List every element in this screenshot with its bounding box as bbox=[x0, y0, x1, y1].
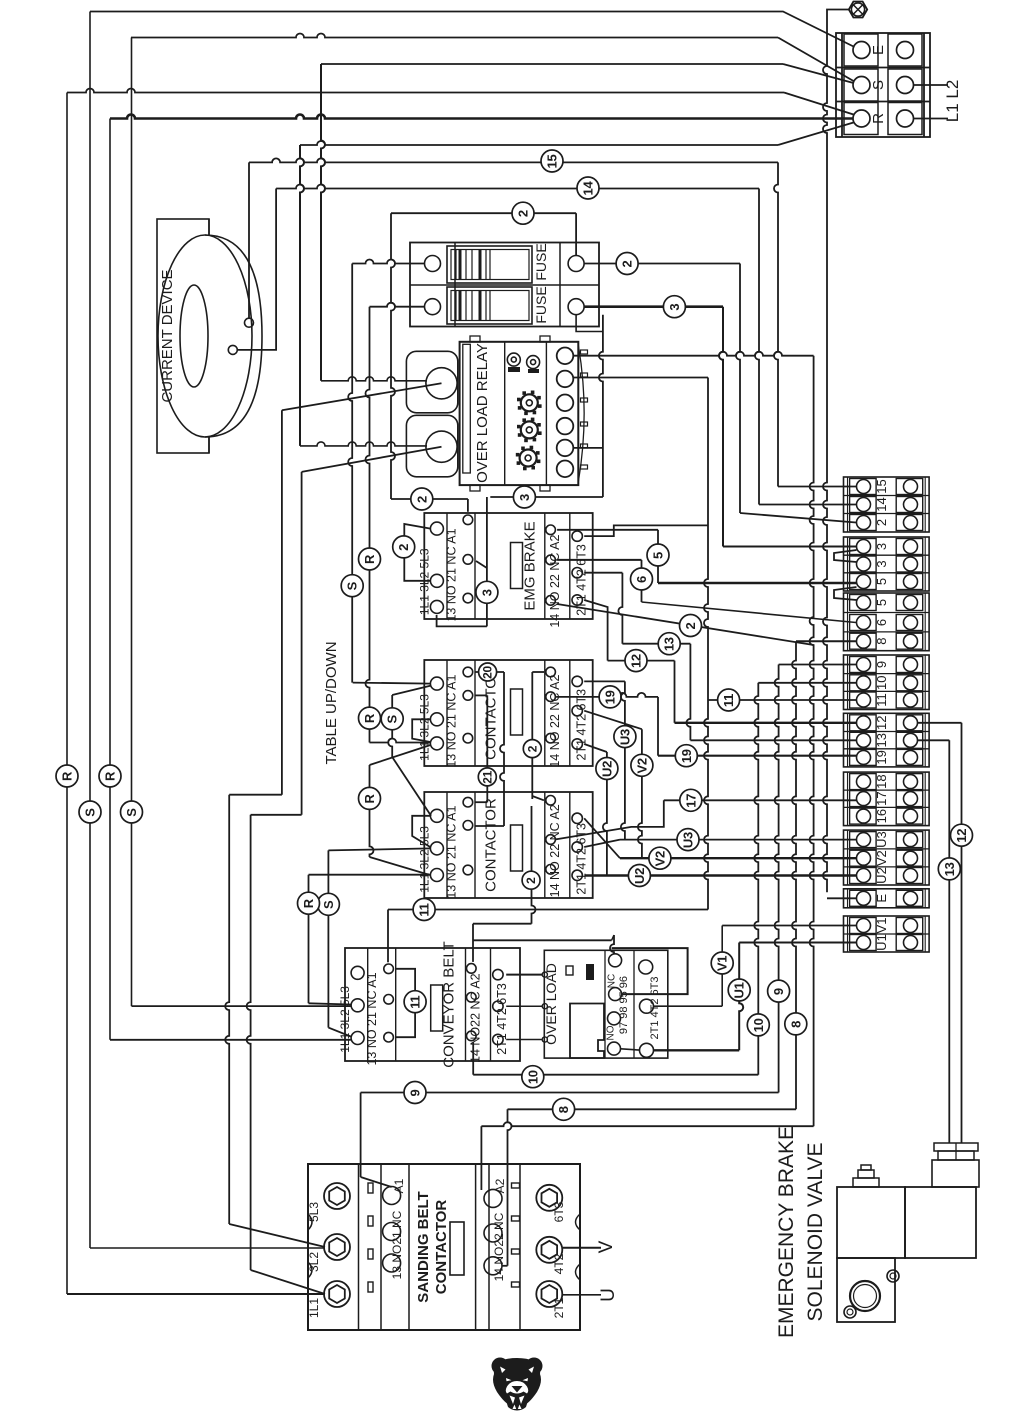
svg-text:1L1 3L2 5L3: 1L1 3L2 5L3 bbox=[417, 694, 431, 761]
wire net 14 bbox=[237, 189, 276, 350]
wire OL2 97 to 2T1 link bbox=[621, 1049, 640, 1050]
svg-text:11: 11 bbox=[408, 996, 423, 1009]
wire jog b bbox=[251, 814, 302, 816]
label U1 a bbox=[728, 979, 750, 1001]
wire into terminal 17 bbox=[664, 799, 857, 801]
contactor K-table-down body bbox=[424, 792, 592, 898]
OL2 heater blob bbox=[570, 1004, 604, 1059]
wire netU2 table-up 2T1 down bbox=[584, 744, 607, 752]
wire 12 vert bbox=[674, 661, 676, 723]
svg-text:A2: A2 bbox=[493, 1178, 507, 1193]
svg-text:13 NO 21 NC A1: 13 NO 21 NC A1 bbox=[365, 972, 379, 1065]
sanding wavy left edge bbox=[308, 1214, 312, 1230]
overload relay big terminal 2 bbox=[406, 415, 457, 477]
wire net2 into conveyor A2 bbox=[472, 924, 474, 962]
label R on x67 bbox=[56, 765, 78, 787]
terminal V1 bbox=[850, 918, 877, 934]
terminal 16 bbox=[850, 808, 877, 824]
svg-text:U2: U2 bbox=[632, 868, 647, 884]
terminal strip group U3/V2/U2 bbox=[844, 830, 930, 885]
svg-text:V2: V2 bbox=[634, 758, 649, 773]
svg-text:14 NO 22 NC A2: 14 NO 22 NC A2 bbox=[548, 535, 562, 628]
wire into terminal 13 bbox=[690, 739, 856, 741]
wire net 2 vert left bbox=[391, 213, 395, 499]
wire R feeder x67 bbox=[66, 93, 68, 1295]
wire 20 into down-21NC bbox=[475, 825, 504, 827]
terminal V2 bbox=[850, 850, 877, 866]
label 9 a bbox=[404, 1082, 426, 1104]
wire slope to R c bbox=[778, 123, 854, 146]
sanding contactor aux circles right bbox=[484, 1189, 502, 1207]
label S on x131 bbox=[121, 801, 143, 823]
wire sanding 3L2 horizontal bbox=[90, 1247, 325, 1249]
wire net19 table-up 22NC to terminal 19 bbox=[556, 693, 658, 697]
contactor K-conveyor coil bbox=[431, 985, 443, 1031]
wire into terminal 9 bbox=[779, 664, 857, 666]
wire 2 slope to terminal bbox=[740, 513, 856, 523]
wire into terminal V1 bbox=[722, 925, 856, 927]
svg-text:13: 13 bbox=[874, 733, 889, 747]
wire 9 vert bbox=[775, 665, 779, 1093]
label 19 b bbox=[675, 745, 697, 767]
terminal 17 bbox=[850, 791, 877, 807]
svg-text:14 NO 22 NC A2: 14 NO 22 NC A2 bbox=[548, 675, 562, 768]
overload relay right contact column bbox=[578, 345, 584, 482]
label 6 bbox=[631, 568, 653, 590]
wire 2 vert bbox=[736, 264, 740, 514]
terminal 14 bbox=[850, 497, 877, 513]
svg-text:R: R bbox=[362, 554, 377, 564]
label 12 a bbox=[625, 650, 647, 672]
terminal U3 bbox=[850, 832, 877, 848]
wire U1 vert bbox=[739, 943, 743, 1051]
svg-text:2: 2 bbox=[516, 210, 531, 217]
OL2 inner marks bbox=[566, 966, 573, 975]
svg-text:20: 20 bbox=[481, 666, 495, 679]
terminal strip group V1/U1 bbox=[844, 916, 930, 952]
wire OL1 aux row5 bbox=[573, 447, 603, 449]
wire sanding feeder a2 bbox=[225, 795, 229, 1224]
wire tap to 21NC bbox=[476, 561, 487, 568]
svg-text:U3: U3 bbox=[681, 832, 696, 848]
terminal 18 bbox=[850, 774, 877, 790]
wire S feeder x90 bbox=[89, 12, 91, 1249]
svg-text:U2: U2 bbox=[874, 867, 889, 884]
wire EMG 2T1 to net12 bbox=[584, 600, 607, 661]
wire 19 vert bbox=[657, 697, 659, 756]
wire net 2 to EMG A1 bbox=[391, 498, 468, 500]
svg-text:6T3: 6T3 bbox=[552, 1201, 566, 1222]
wire chain R2 vert bbox=[308, 875, 310, 1004]
contactor K-table-down coil bbox=[511, 825, 523, 871]
current device terminal 2 bbox=[228, 345, 237, 354]
wire net12 terminal to solenoid bbox=[918, 722, 962, 724]
wire 12 horiz bbox=[608, 660, 675, 662]
terminal strip group 9/10/11 bbox=[844, 655, 930, 710]
contactor K-conveyor aux contacts right bbox=[467, 964, 477, 974]
terminal U1 bbox=[850, 935, 877, 951]
label S on x90 bbox=[79, 801, 101, 823]
svg-text:2: 2 bbox=[620, 260, 635, 267]
svg-text:12: 12 bbox=[874, 716, 889, 730]
wire S chain slope bbox=[392, 757, 431, 816]
terminal 11 bbox=[850, 692, 877, 708]
svg-text:S: S bbox=[385, 714, 400, 723]
svg-text:OVER LOAD RELAY: OVER LOAD RELAY bbox=[474, 343, 491, 483]
svg-text:FUSE: FUSE bbox=[533, 286, 549, 323]
terminal strip group 18/17/16 bbox=[844, 772, 930, 826]
wire S main vert bbox=[348, 264, 352, 683]
wire 2 drop to A1 bbox=[467, 499, 469, 512]
wire net2 96 link bbox=[473, 939, 612, 941]
svg-text:3L2: 3L2 bbox=[307, 1252, 321, 1272]
wire R main into table-up 1L1 bbox=[370, 739, 431, 743]
fuse block F1/F2 bbox=[410, 243, 599, 327]
overload relay dials bbox=[521, 394, 538, 411]
label 8 b bbox=[785, 1013, 807, 1035]
wire OL2 4T2 to terminal V1 bbox=[654, 1005, 723, 1007]
wire EMG 1L1 bracket bbox=[437, 615, 487, 626]
wire netU3 row to terminal U3 bbox=[584, 818, 620, 858]
label 2 c bbox=[616, 253, 638, 275]
wire R chain slope bbox=[370, 857, 430, 875]
label 14 bbox=[577, 177, 599, 199]
wire into terminal U1 bbox=[739, 942, 856, 944]
solenoid valve cable gland bbox=[934, 1143, 978, 1151]
svg-text:R: R bbox=[362, 793, 377, 803]
svg-text:1L1: 1L1 bbox=[307, 1298, 321, 1318]
svg-text:16: 16 bbox=[874, 809, 889, 823]
wire chain R2 slope bbox=[309, 1003, 351, 1004]
terminal E bbox=[850, 890, 877, 906]
label U3 a bbox=[614, 726, 636, 748]
sanding contactor aux circles left bbox=[383, 1187, 401, 1205]
wire 15 vert bbox=[774, 162, 778, 486]
label V2 b bbox=[649, 847, 671, 869]
pilot lamp PL bbox=[849, 2, 867, 18]
svg-text:S: S bbox=[321, 900, 336, 909]
wire EMG 5L3-3L2 bracket net2 bbox=[404, 524, 430, 581]
svg-text:13 NO 21 NC A1: 13 NO 21 NC A1 bbox=[444, 528, 458, 621]
svg-text:3: 3 bbox=[874, 543, 889, 550]
wire net5 to terminal bbox=[658, 582, 857, 584]
wire 3 vert bbox=[719, 307, 723, 547]
svg-text:S: S bbox=[124, 808, 139, 817]
svg-text:1L1 3L2 5L3: 1L1 3L2 5L3 bbox=[417, 826, 431, 893]
wire lamp to E terminal bbox=[827, 10, 849, 58]
wire net11 bottom bbox=[388, 909, 708, 911]
wire V2 vert bbox=[638, 729, 642, 858]
contactor K-table-down aux contacts right bbox=[546, 796, 556, 806]
wire chain S2 slope bbox=[328, 1028, 350, 1037]
svg-text:U1: U1 bbox=[732, 982, 747, 998]
sanding contactor aux tabs right bbox=[512, 1183, 520, 1188]
wire 13 cable bbox=[948, 740, 950, 1143]
wire net S top b bbox=[321, 63, 783, 65]
terminal jumper 3-3 bbox=[834, 550, 857, 562]
label 13 a bbox=[658, 633, 680, 655]
svg-text:8: 8 bbox=[556, 1106, 571, 1113]
wire 8 vert bbox=[792, 641, 796, 1109]
svg-text:CONVEYOR BELT: CONVEYOR BELT bbox=[441, 941, 458, 1067]
label 13 b bbox=[938, 858, 960, 880]
wire R feeder x110 bbox=[109, 119, 111, 1040]
overload relay screws bbox=[507, 353, 520, 366]
svg-text:8: 8 bbox=[788, 1021, 803, 1028]
sanding contactor left hex terminals bbox=[324, 1183, 350, 1209]
terminal 3 bbox=[850, 556, 877, 572]
wire EMG 6T3 to net11 bbox=[584, 525, 708, 536]
svg-text:9: 9 bbox=[771, 988, 786, 995]
fuse terminals bbox=[425, 256, 441, 272]
svg-text:14: 14 bbox=[874, 497, 889, 511]
contactor K-table-up coil bbox=[511, 689, 523, 735]
label U2 a bbox=[596, 758, 618, 780]
contactor K-table-up body bbox=[424, 660, 592, 766]
terminal 5 bbox=[850, 595, 877, 611]
label V1 a bbox=[711, 952, 733, 974]
current device terminal 1 bbox=[245, 318, 254, 327]
wire slope to S b bbox=[783, 64, 854, 83]
label U2 b bbox=[628, 865, 650, 887]
svg-text:2T1 4T2 6T3: 2T1 4T2 6T3 bbox=[495, 983, 509, 1055]
wire S feeder x131 bbox=[131, 38, 133, 1007]
svg-text:9: 9 bbox=[874, 661, 889, 668]
svg-text:13 NO 21 NC A1: 13 NO 21 NC A1 bbox=[444, 675, 458, 768]
label 10 a bbox=[522, 1066, 544, 1088]
svg-text:1L1 3L2 5L3: 1L1 3L2 5L3 bbox=[338, 986, 352, 1053]
wire jog a bbox=[229, 794, 282, 796]
label R mid2 bbox=[359, 707, 381, 729]
wire into terminal 15 bbox=[778, 486, 857, 488]
wire 21 vert bbox=[486, 695, 488, 802]
svg-text:2: 2 bbox=[525, 745, 539, 752]
solenoid valve bottom block bbox=[837, 1258, 895, 1322]
terminal block TB1 R/S/E bbox=[836, 33, 930, 137]
OL2 aux contacts bbox=[609, 954, 622, 967]
contactor K-table-up L terminals bbox=[430, 677, 443, 690]
terminal 6 bbox=[850, 615, 877, 631]
svg-text:FUSE: FUSE bbox=[533, 243, 549, 280]
label R chain bbox=[359, 787, 381, 809]
sanding contactor aux tabs left bbox=[368, 1183, 373, 1193]
contactor EMG brake aux contacts right bbox=[546, 525, 556, 535]
svg-text:L1 L2: L1 L2 bbox=[943, 80, 962, 123]
wire net R top a bbox=[67, 89, 784, 93]
svg-text:15: 15 bbox=[545, 155, 560, 169]
wire into terminal 8 bbox=[796, 640, 857, 642]
label U3 b bbox=[677, 829, 699, 851]
label 11 a bbox=[413, 899, 435, 921]
wire chain S2 vert bbox=[327, 850, 329, 1027]
solenoid valve top bolt bbox=[853, 1178, 879, 1187]
wire U output bbox=[563, 1294, 601, 1296]
svg-text:6: 6 bbox=[874, 619, 889, 626]
wire lamp vert to E bbox=[823, 57, 827, 892]
svg-text:2T1 4T2 6T3: 2T1 4T2 6T3 bbox=[649, 977, 661, 1040]
label 8 a bbox=[553, 1098, 575, 1120]
wire net 2 fuse right to terminal 2 bbox=[584, 263, 740, 265]
svg-text:2: 2 bbox=[414, 496, 429, 503]
svg-text:V: V bbox=[596, 1240, 617, 1253]
svg-text:5: 5 bbox=[874, 599, 889, 606]
svg-text:13: 13 bbox=[662, 637, 677, 651]
terminal 12 bbox=[850, 715, 877, 731]
wire slope to S bbox=[778, 38, 854, 82]
contactor K-table-up aux contacts left bbox=[463, 667, 473, 677]
svg-text:97 98 95 96: 97 98 95 96 bbox=[618, 976, 630, 1034]
wire net 15 bbox=[248, 162, 250, 318]
terminal 13 bbox=[850, 732, 877, 748]
wire S main from fuse1 left bbox=[352, 260, 424, 264]
wire R main from fuse2 left bbox=[370, 303, 425, 307]
label 3 b bbox=[513, 486, 535, 508]
wire net2 slope bbox=[557, 604, 814, 645]
svg-text:V2: V2 bbox=[652, 851, 667, 866]
wire S chain table-up 5L3 to table-down 5L3 bbox=[392, 686, 431, 696]
wire EMG NC22 to net6 bbox=[557, 559, 641, 561]
contactor EMG brake L terminals bbox=[430, 522, 443, 535]
svg-text:S: S bbox=[345, 581, 360, 590]
svg-text:R: R bbox=[103, 771, 118, 781]
svg-text:3: 3 bbox=[517, 494, 532, 501]
svg-text:NC: NC bbox=[607, 974, 618, 988]
wire net R top c bbox=[300, 141, 778, 145]
svg-text:12: 12 bbox=[629, 654, 644, 668]
wire R terminal branch to OL1 T2 bbox=[300, 145, 304, 446]
contactor EMG brake body bbox=[424, 513, 592, 619]
svg-text:17: 17 bbox=[874, 791, 889, 805]
wire slope into sanding 1L1 bbox=[251, 1270, 325, 1294]
wire into terminal 19 bbox=[658, 755, 857, 757]
solenoid valve connector bbox=[932, 1160, 979, 1187]
label 17 bbox=[680, 789, 702, 811]
label R low bbox=[298, 892, 320, 914]
svg-text:5: 5 bbox=[874, 578, 889, 585]
svg-text:R: R bbox=[362, 713, 377, 723]
wire interlock net21 bbox=[475, 694, 487, 696]
svg-text:15: 15 bbox=[874, 479, 889, 493]
terminal 3 bbox=[850, 539, 877, 555]
wire U3 vert bbox=[621, 681, 625, 839]
terminal 9 bbox=[850, 657, 877, 673]
svg-text:V1: V1 bbox=[874, 918, 889, 934]
wire slope into sanding 3L2 bbox=[229, 1224, 325, 1247]
terminal TB1-R bbox=[844, 103, 878, 135]
svg-text:2T1: 2T1 bbox=[552, 1297, 566, 1318]
svg-text:V1: V1 bbox=[715, 956, 730, 971]
wire 20 vert bbox=[500, 672, 504, 826]
contactor EMG brake T terminals bbox=[572, 531, 582, 541]
contactor EMG brake coil bbox=[511, 543, 523, 589]
label 9 b bbox=[768, 980, 790, 1002]
svg-text:2T1 4T2 6T3: 2T1 4T2 6T3 bbox=[574, 544, 588, 616]
svg-text:SANDING BELT: SANDING BELT bbox=[415, 1191, 432, 1302]
svg-text:14 NO22 NC: 14 NO22 NC bbox=[492, 1212, 506, 1281]
wire OL2 95 loop bbox=[612, 948, 688, 994]
label R on x110 bbox=[99, 765, 121, 787]
terminal strip group 12/13/19 bbox=[844, 713, 930, 767]
wire sanding 1L1 horizontal bbox=[67, 1293, 325, 1295]
terminal 8 bbox=[850, 633, 877, 649]
svg-text:R: R bbox=[60, 771, 75, 781]
wire 13 horiz bbox=[622, 643, 690, 645]
svg-text:18: 18 bbox=[874, 774, 889, 788]
svg-text:E: E bbox=[870, 45, 887, 55]
terminal strip group 15/14/2 bbox=[844, 477, 930, 532]
label S low bbox=[317, 893, 339, 915]
label 20 bbox=[479, 663, 497, 681]
wire EMG 4T2 to net13 bbox=[584, 572, 622, 574]
svg-text:5L3: 5L3 bbox=[307, 1202, 321, 1222]
label 2 d bbox=[393, 536, 415, 558]
wire net11 vert bbox=[704, 378, 708, 910]
svg-text:V2: V2 bbox=[874, 850, 889, 866]
wire OL1 T1 slope to sanding feeder bbox=[282, 383, 442, 410]
wire slope to R bbox=[784, 93, 854, 115]
wire into terminal 3 bbox=[723, 546, 857, 548]
wire OL2 2T1 to terminal U1 bbox=[653, 1049, 739, 1051]
wire conveyor A1-13NO jumper bbox=[396, 969, 415, 1037]
contactor K-conveyor body bbox=[345, 948, 520, 1061]
wire 13 vert b bbox=[686, 644, 690, 741]
label R mid bbox=[359, 548, 381, 570]
wire 10 vert bbox=[754, 683, 758, 1075]
wire table-down 3L2 to conveyor chain S2 bbox=[328, 848, 431, 850]
terminal 19 bbox=[850, 749, 877, 765]
wire sanding feeder b bbox=[301, 472, 303, 815]
label 15 bbox=[541, 150, 563, 172]
svg-text:19: 19 bbox=[679, 749, 694, 763]
terminal jumper 5-5 bbox=[834, 587, 857, 600]
contactor K-table-up aux contacts right bbox=[546, 667, 556, 677]
wire 13 vert a bbox=[618, 573, 622, 644]
contactor K-table-down L terminals bbox=[430, 809, 443, 822]
svg-text:3: 3 bbox=[667, 304, 682, 311]
svg-text:19: 19 bbox=[603, 690, 618, 704]
wire net E top bbox=[90, 12, 855, 48]
wire netV2 row to terminal V2 bbox=[584, 840, 620, 847]
svg-text:TABLE UP/DOWN: TABLE UP/DOWN bbox=[323, 641, 340, 764]
wire drop to sanding A2 bbox=[480, 1126, 482, 1190]
wire V2 row bbox=[620, 857, 857, 859]
label 2 f bbox=[523, 740, 541, 758]
wire net 3 fuse2 down branch bbox=[599, 315, 603, 497]
wire 5 vert bbox=[657, 530, 659, 583]
contactor K-table-up T terminals bbox=[572, 676, 582, 686]
terminal 10 bbox=[850, 675, 877, 691]
terminal TB1-E bbox=[844, 34, 878, 66]
svg-text:13 NO21 NC: 13 NO21 NC bbox=[390, 1210, 404, 1279]
svg-text:13 NO 21 NC A1: 13 NO 21 NC A1 bbox=[444, 806, 458, 899]
label 2 g bbox=[522, 871, 540, 889]
wire net10 conveyor NO14 to terminal 10 bbox=[472, 1042, 474, 1074]
wire U3 row bbox=[620, 839, 857, 841]
svg-text:21: 21 bbox=[480, 770, 494, 783]
wire 8 into NO14 bbox=[502, 1265, 508, 1267]
terminal strip group E bbox=[844, 889, 930, 908]
current device body bbox=[157, 219, 209, 453]
svg-text:14 NO22 NC A2: 14 NO22 NC A2 bbox=[469, 973, 483, 1063]
svg-text:U3: U3 bbox=[617, 729, 632, 745]
label 2 a bbox=[512, 202, 534, 224]
svg-text:11: 11 bbox=[417, 903, 432, 916]
wire conveyor A1 net11 up bbox=[387, 910, 389, 963]
contactor EMG brake aux contacts left bbox=[463, 515, 473, 525]
svg-text:SOLENOID VALVE: SOLENOID VALVE bbox=[804, 1143, 827, 1322]
svg-text:S: S bbox=[870, 80, 887, 90]
terminal 2 bbox=[850, 515, 877, 531]
